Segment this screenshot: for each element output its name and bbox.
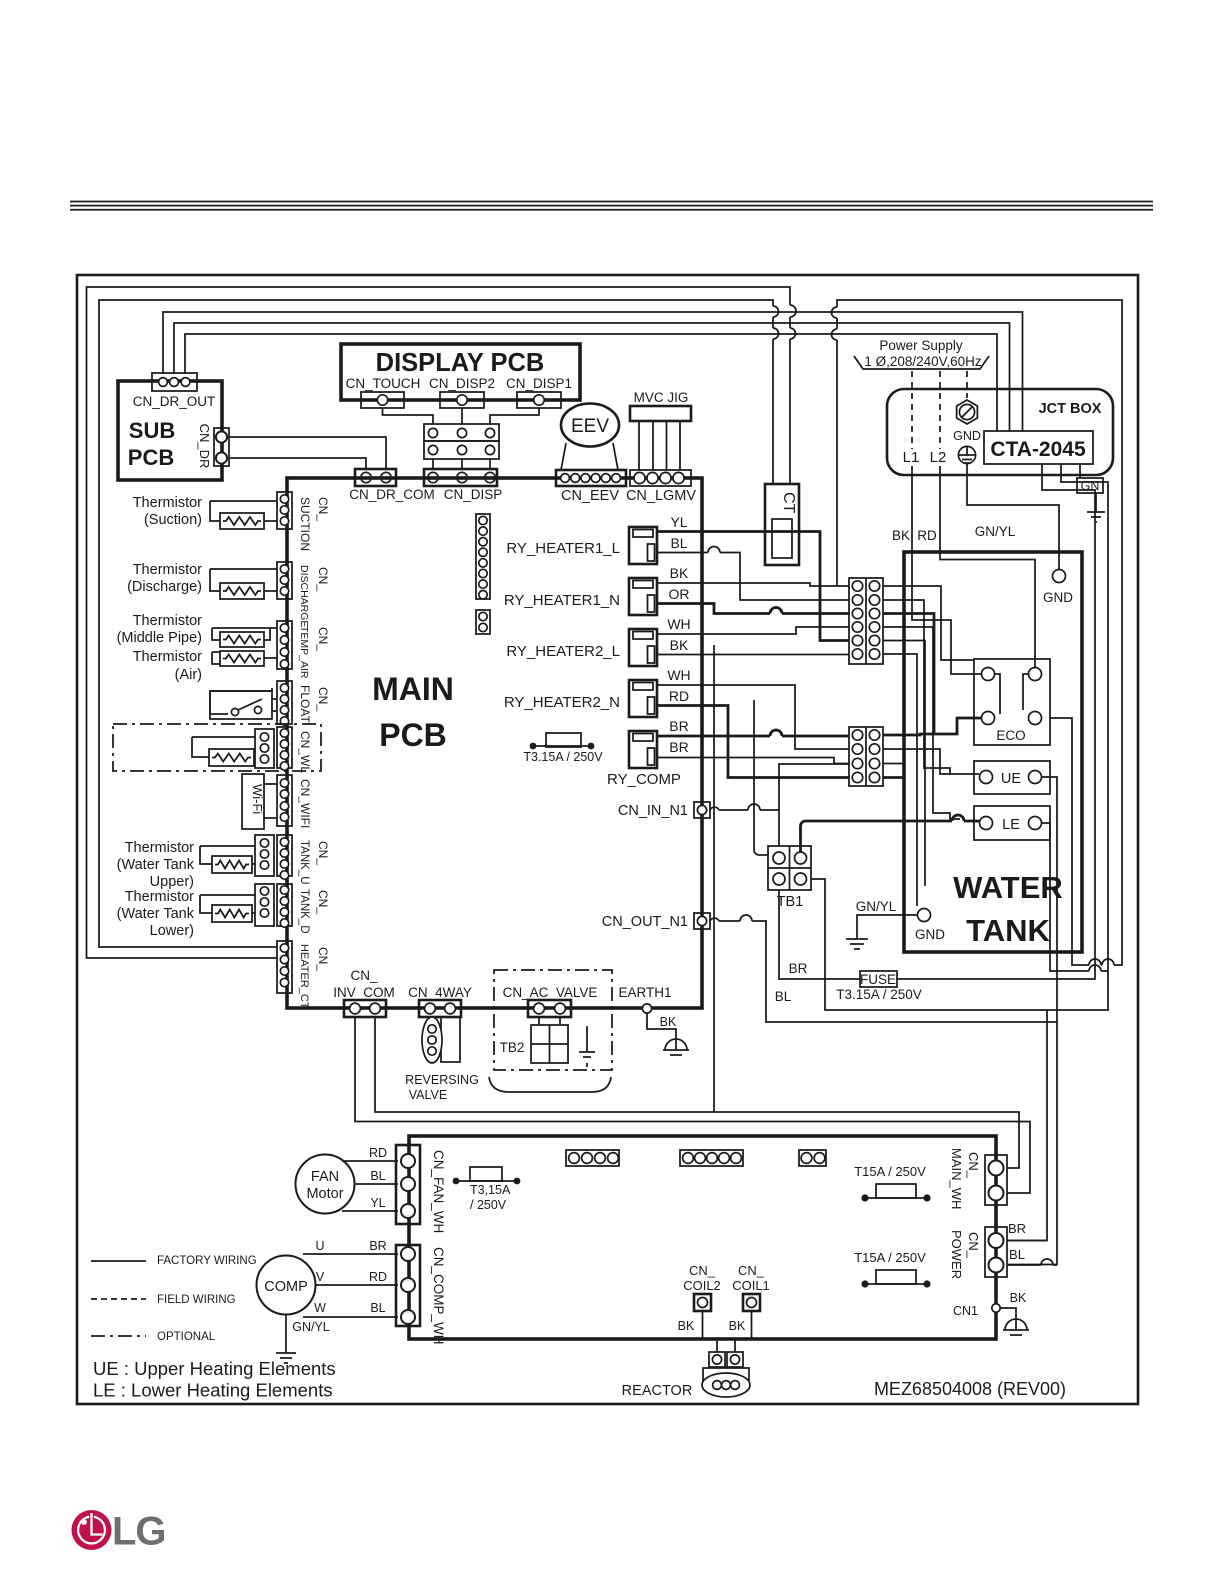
- wire grid1 row1 to ECO TL: [883, 586, 974, 660]
- svg-text:LE: LE: [1002, 817, 1020, 833]
- wire TB1 TR to LE left (thick): [801, 815, 980, 852]
- wire grid1 row5 drop: [883, 641, 925, 887]
- tank GND terminal top: [1053, 570, 1066, 583]
- svg-text:RY_HEATER1_N: RY_HEATER1_N: [504, 592, 620, 609]
- wire header to CN_DISP: [433, 459, 490, 469]
- MAIN PCB board: [287, 478, 702, 1008]
- wire L2 down: [939, 466, 941, 552]
- JCT BOX: [887, 389, 1113, 475]
- top rule: [70, 201, 1153, 203]
- svg-text:(Suction): (Suction): [144, 512, 202, 528]
- wire loop grid1 to ECO via right side: [832, 300, 1123, 965]
- EEV valve: [561, 404, 619, 447]
- reactor terminals: [709, 1352, 725, 1367]
- svg-text:CN_DISP: CN_DISP: [444, 487, 503, 502]
- WATER TANK: [904, 552, 1082, 952]
- connector CN_WL: [277, 727, 292, 768]
- svg-text:RD: RD: [669, 688, 689, 704]
- connector CN_FAN_WH: [396, 1145, 420, 1224]
- svg-text:REACTOR: REACTOR: [622, 1383, 693, 1399]
- terminal block TB1: [768, 846, 811, 890]
- svg-text:SUB: SUB: [129, 418, 175, 443]
- svg-text:YL: YL: [370, 1196, 385, 1210]
- svg-text:VALVE: VALVE: [409, 1088, 447, 1102]
- wire L1 down: [911, 466, 913, 552]
- wire CN_DISP2 to header: [461, 408, 463, 424]
- wire EEV legs: [561, 443, 618, 470]
- svg-text:CN_DR_OUT: CN_DR_OUT: [133, 394, 216, 409]
- svg-text:CN1: CN1: [953, 1304, 978, 1318]
- wire grid2 row4 thick stub: [883, 776, 904, 779]
- svg-text:RY_HEATER2_L: RY_HEATER2_L: [506, 643, 620, 660]
- svg-text:CTA-2045: CTA-2045: [990, 438, 1086, 461]
- svg-text:CN_WL: CN_WL: [298, 731, 312, 773]
- wire CN_INV_COM pin1 to CN_MAIN_WH: [355, 1017, 1030, 1193]
- COMP motor: [257, 1256, 316, 1315]
- svg-text:(Air): (Air): [175, 667, 202, 683]
- svg-text:CN_: CN_: [316, 890, 330, 914]
- svg-text:GND: GND: [953, 429, 981, 443]
- svg-text:HEATER_CT: HEATER_CT: [298, 944, 310, 1009]
- svg-text:OPTIONAL: OPTIONAL: [157, 1331, 216, 1343]
- wire CN_IN_N1 to grid2: [710, 804, 779, 810]
- inverter PCB: [409, 1136, 996, 1339]
- svg-text:CN_: CN_: [738, 1263, 765, 1278]
- svg-text:Power Supply: Power Supply: [879, 338, 963, 353]
- svg-text:T3.15A / 250V: T3.15A / 250V: [836, 987, 922, 1002]
- svg-text:BR: BR: [369, 1239, 386, 1253]
- svg-text:Thermistor: Thermistor: [133, 495, 202, 511]
- svg-text:TANK: TANK: [966, 913, 1050, 948]
- wire grid1 row3 to ECO BL (thick): [883, 614, 981, 735]
- svg-text:FLOAT: FLOAT: [298, 685, 312, 723]
- CTA-2045 box: [984, 431, 1093, 464]
- wire CN1 to ground: [1000, 1308, 1016, 1316]
- svg-text:BR: BR: [669, 718, 688, 734]
- svg-text:COIL1: COIL1: [732, 1278, 770, 1293]
- earth symbol (circle): [958, 446, 975, 463]
- outer border frame: [77, 275, 1138, 1404]
- svg-text:(Water Tank: (Water Tank: [117, 857, 195, 873]
- svg-text:BK: BK: [670, 637, 689, 653]
- svg-text:T3,15A: T3,15A: [470, 1183, 511, 1197]
- svg-text:EEV: EEV: [571, 416, 609, 437]
- svg-text:CN_: CN_: [316, 567, 330, 591]
- svg-text:CN_DISP2: CN_DISP2: [429, 376, 495, 391]
- wire EARTH1 to ground: [647, 1013, 676, 1036]
- svg-text:BK: BK: [660, 1015, 677, 1029]
- svg-text:RD: RD: [369, 1146, 387, 1160]
- header strip 2pin: [799, 1150, 826, 1166]
- Wi-Fi module: [242, 774, 264, 829]
- svg-text:BR: BR: [1008, 1221, 1026, 1236]
- svg-text:GND: GND: [915, 927, 945, 942]
- wire MVC JIG legs: [639, 421, 680, 470]
- svg-text:GN: GN: [1081, 479, 1100, 493]
- svg-text:BR: BR: [669, 739, 688, 755]
- svg-text:FAN: FAN: [311, 1169, 339, 1185]
- header block 3x2: [424, 424, 499, 441]
- connector CN_TOUCH: [361, 392, 404, 408]
- wire fan RD: [342, 1160, 398, 1162]
- connector CN_FLOAT: [277, 681, 292, 724]
- connector CN_TANK_U: [255, 835, 274, 876]
- wire fan YL: [342, 1210, 398, 1212]
- svg-text:Motor: Motor: [306, 1186, 343, 1202]
- legend optional: [91, 1335, 146, 1337]
- wire LE right to CTA riser: [1042, 464, 1108, 971]
- header strip 4pin: [566, 1150, 619, 1166]
- header strip 5pin: [680, 1150, 743, 1166]
- svg-text:RD: RD: [917, 528, 937, 543]
- svg-text:CN_WIFI: CN_WIFI: [298, 779, 312, 828]
- svg-text:L2: L2: [930, 449, 947, 466]
- connector CN_HEATER_CT: [277, 941, 292, 993]
- svg-text:DISCHARGE: DISCHARGE: [298, 565, 310, 627]
- svg-text:TB2: TB2: [500, 1040, 525, 1055]
- legend factory wiring: [91, 1260, 146, 1262]
- svg-text:BL: BL: [370, 1169, 385, 1183]
- wire coil2 to reactor: [703, 1311, 718, 1352]
- svg-text:COMP: COMP: [264, 1279, 308, 1295]
- LG logo: [72, 1510, 112, 1550]
- SUB PCB board: [118, 381, 222, 480]
- svg-text:REVERSING: REVERSING: [405, 1073, 479, 1087]
- connector CN_DR_OUT: [152, 373, 197, 391]
- svg-text:(Discharge): (Discharge): [127, 579, 202, 595]
- svg-text:MVC JIG: MVC JIG: [634, 390, 689, 405]
- LE heater terminals: [974, 806, 1050, 840]
- svg-text:TANK_D: TANK_D: [298, 889, 310, 934]
- svg-text:CN_EEV: CN_EEV: [561, 488, 619, 504]
- svg-text:FUSE: FUSE: [860, 972, 896, 987]
- connector CN_DISP1: [517, 392, 561, 408]
- svg-text:CN_: CN_: [316, 497, 330, 521]
- tank GND terminal bottom: [918, 909, 931, 922]
- svg-text:SUCTION: SUCTION: [298, 497, 312, 551]
- svg-text:WATER: WATER: [953, 870, 1063, 905]
- svg-text:GN/YL: GN/YL: [292, 1320, 330, 1334]
- svg-text:PCB: PCB: [128, 445, 174, 470]
- wire TB1 left drop: [754, 700, 768, 855]
- svg-text:CN_DR: CN_DR: [197, 424, 212, 469]
- svg-text:/ 250V: / 250V: [470, 1198, 507, 1212]
- reversing valve: [441, 1017, 460, 1062]
- connector CN_LGMV: [630, 470, 691, 486]
- connector CN_SUCTION: [277, 492, 292, 529]
- ground screw GND: [957, 400, 978, 424]
- svg-text:BK: BK: [892, 528, 910, 543]
- wire riser to TB1 horizontal: [1047, 971, 1108, 1010]
- svg-text:CN_: CN_: [316, 947, 330, 971]
- svg-text:LG: LG: [112, 1510, 166, 1554]
- svg-text:CN_: CN_: [966, 1152, 981, 1179]
- ECO thermostat: [974, 659, 1050, 745]
- wire CN_DR to CN_DR_COM pin2: [229, 437, 386, 470]
- svg-text:T3.15A / 250V: T3.15A / 250V: [523, 750, 603, 764]
- wire coil1 to reactor: [735, 1311, 752, 1352]
- svg-text:CN_: CN_: [966, 1232, 981, 1259]
- fuse T3,15A/250V (inverter): [456, 1180, 517, 1182]
- wire comp W/BL: [303, 1316, 398, 1318]
- svg-text:RY_HEATER2_N: RY_HEATER2_N: [504, 694, 620, 711]
- ground (TB2): [586, 1026, 588, 1040]
- wire grid1 row2 to UE left: [883, 600, 979, 774]
- svg-text:MAIN_WH: MAIN_WH: [949, 1148, 964, 1209]
- svg-text:PCB: PCB: [379, 717, 447, 753]
- GN ground: [1079, 464, 1081, 478]
- wire fan BL: [355, 1183, 398, 1185]
- connector CN_TANK_D: [255, 884, 274, 926]
- fuse FUSE T3.15A/250V: [860, 971, 897, 987]
- svg-text:FIELD WIRING: FIELD WIRING: [157, 1294, 236, 1306]
- FAN motor: [296, 1155, 355, 1214]
- svg-text:YL: YL: [670, 514, 687, 530]
- connector CN_WIFI: [277, 775, 292, 826]
- wire UE right riser: [1042, 777, 1057, 1022]
- wire CT loop outer (HEATER_CT to CT right): [87, 287, 797, 958]
- svg-text:MAIN: MAIN: [372, 671, 454, 707]
- svg-text:INV_COM: INV_COM: [333, 985, 395, 1000]
- svg-text:CN_: CN_: [689, 1263, 716, 1278]
- svg-text:OR: OR: [669, 586, 690, 602]
- wire grid2 row1 to ECO BL (thick): [883, 734, 934, 735]
- connector CN_COMP_WH: [396, 1245, 420, 1326]
- dashed feed GND: [966, 371, 968, 398]
- svg-text:CN_: CN_: [316, 687, 330, 711]
- wire fuse to right riser: [897, 464, 1095, 979]
- wire SUB PCB pin1 to CTA-2045: [163, 312, 1023, 431]
- svg-text:T15A / 250V: T15A / 250V: [854, 1164, 926, 1179]
- wire SUB PCB pin3 to CTA-2045: [185, 334, 997, 431]
- svg-text:GND: GND: [1043, 590, 1073, 605]
- svg-text:Thermistor: Thermistor: [133, 562, 202, 578]
- connector CN_DR_COM: [355, 469, 396, 486]
- header strip 8pin: [476, 514, 490, 599]
- svg-text:POWER: POWER: [949, 1230, 964, 1279]
- svg-text:CN_FAN_WH: CN_FAN_WH: [431, 1150, 446, 1233]
- dashed feed L2: [939, 371, 941, 449]
- optional box CN_AC_VALVE: [494, 970, 612, 1070]
- svg-text:RY_COMP: RY_COMP: [607, 771, 681, 788]
- svg-text:WH: WH: [667, 667, 690, 683]
- svg-text:GN/YL: GN/YL: [975, 524, 1016, 539]
- wire comp V/RD: [316, 1284, 398, 1286]
- svg-text:FACTORY WIRING: FACTORY WIRING: [157, 1255, 257, 1267]
- connector CN_DISCHARGE: [277, 562, 292, 599]
- legend field wiring: [91, 1298, 146, 1300]
- svg-text:BR: BR: [789, 961, 808, 976]
- svg-text:CN_: CN_: [316, 627, 330, 651]
- svg-text:JCT BOX: JCT BOX: [1039, 401, 1102, 417]
- svg-text:TEMP_AIR: TEMP_AIR: [298, 626, 310, 679]
- svg-text:CN_: CN_: [316, 841, 330, 865]
- wire CN_DR to CN_DR_COM pin1: [229, 458, 366, 470]
- svg-text:BK: BK: [729, 1319, 746, 1333]
- wire L1 inside tank: [912, 552, 981, 674]
- svg-text:CN_TOUCH: CN_TOUCH: [346, 376, 421, 391]
- svg-text:GN/YL: GN/YL: [856, 899, 897, 914]
- connector grid 8pin: [849, 727, 883, 786]
- svg-text:CN_LGMV: CN_LGMV: [626, 488, 696, 504]
- svg-text:UE: UE: [1001, 771, 1021, 787]
- connector CN_DISP: [424, 469, 497, 486]
- svg-text:BL: BL: [670, 535, 687, 551]
- svg-text:CN_COMP_WH: CN_COMP_WH: [431, 1247, 446, 1345]
- connector CN_TEMP_AIR: [277, 621, 292, 669]
- wire grid1 row6 stub: [883, 654, 917, 906]
- connector CN_DISP2: [440, 392, 484, 408]
- svg-text:T15A / 250V: T15A / 250V: [854, 1250, 926, 1265]
- DISPLAY PCB board: [341, 344, 580, 400]
- svg-text:TB1: TB1: [777, 894, 804, 910]
- svg-text:BL: BL: [370, 1301, 385, 1315]
- relay wires to grids: [657, 532, 849, 641]
- svg-text:(Middle Pipe): (Middle Pipe): [117, 630, 202, 646]
- svg-text:BL: BL: [775, 989, 792, 1004]
- wire SUB PCB pin2 to CTA-2045: [174, 323, 1010, 431]
- brace under AC valve: [489, 1077, 611, 1092]
- svg-text:1 Ø,208/240V,60Hz: 1 Ø,208/240V,60Hz: [864, 354, 982, 369]
- wire grid2 row3 stub: [883, 763, 904, 765]
- fuse T3.15A/250V (main pcb): [533, 745, 591, 747]
- svg-text:CN_DISP1: CN_DISP1: [506, 376, 572, 391]
- wire TB1 BR down right: [811, 879, 1047, 1241]
- svg-text:CN_OUT_N1: CN_OUT_N1: [602, 914, 688, 930]
- svg-text:CN_: CN_: [350, 968, 377, 983]
- svg-text:U: U: [315, 1239, 324, 1253]
- dashed feed L1: [911, 371, 913, 449]
- connector CN_EEV: [556, 470, 626, 486]
- connector small CN_WL: [255, 729, 274, 768]
- svg-text:CT: CT: [780, 492, 797, 514]
- svg-text:V: V: [316, 1270, 325, 1284]
- current transformer CT: [765, 484, 799, 565]
- wire CN_INV_COM pin2 to CN_MAIN_WH: [375, 1017, 1019, 1168]
- svg-text:(Water Tank: (Water Tank: [117, 906, 195, 922]
- optional water-level sensor (dash-dot box): [113, 724, 321, 771]
- float switch: [210, 688, 272, 714]
- wire vertical bypass: [713, 645, 715, 1112]
- svg-text:BL: BL: [1009, 1247, 1025, 1262]
- wire grid1 row4 to LE left: [883, 627, 960, 819]
- wire earth to tank GND: [967, 464, 1059, 570]
- relay RY_COMP: [629, 731, 657, 768]
- svg-text:Thermistor: Thermistor: [125, 889, 194, 905]
- wire CN_DISP1 to header: [490, 408, 539, 424]
- svg-text:Upper): Upper): [150, 874, 194, 890]
- wire grid2 row2 to UE: [883, 749, 950, 774]
- connector grid 12pin: [849, 578, 883, 664]
- wire TB1 BL to fuse: [779, 890, 860, 979]
- terminal TB2: [539, 1017, 560, 1025]
- wire CN_TOUCH to header: [383, 408, 434, 424]
- svg-text:WH: WH: [667, 616, 690, 632]
- wire CN_OUT_N1 to BL: [710, 915, 1057, 1265]
- svg-text:CN_AC_VALVE: CN_AC_VALVE: [503, 985, 598, 1000]
- svg-text:Thermistor: Thermistor: [133, 649, 202, 665]
- svg-text:EARTH1: EARTH1: [618, 985, 671, 1000]
- svg-text:BK: BK: [678, 1319, 695, 1333]
- svg-text:RY_HEATER1_L: RY_HEATER1_L: [506, 540, 620, 557]
- wire L2 inside tank: [940, 552, 1035, 667]
- wire CT loop inner (HEATER_CT to CT left): [99, 300, 779, 947]
- svg-text:CN_4WAY: CN_4WAY: [408, 985, 472, 1000]
- svg-text:Thermistor: Thermistor: [125, 840, 194, 856]
- svg-text:W: W: [314, 1301, 326, 1315]
- svg-text:TANK_U: TANK_U: [298, 840, 310, 885]
- header strip 2pin: [476, 610, 490, 634]
- wire comp U/BR: [303, 1253, 398, 1255]
- svg-text:CN_DR_COM: CN_DR_COM: [349, 487, 435, 502]
- svg-text:L1: L1: [903, 449, 920, 466]
- svg-text:UE : Upper Heating Elements: UE : Upper Heating Elements: [93, 1358, 336, 1379]
- svg-text:Lower): Lower): [150, 923, 194, 939]
- svg-text:ECO: ECO: [996, 728, 1025, 743]
- svg-text:RD: RD: [369, 1270, 387, 1284]
- svg-text:BK: BK: [670, 565, 689, 581]
- svg-text:BK: BK: [1010, 1291, 1027, 1305]
- UE heater terminals: [974, 761, 1050, 794]
- svg-text:Wi-Fi: Wi-Fi: [250, 784, 265, 814]
- svg-text:DISPLAY PCB: DISPLAY PCB: [376, 349, 545, 377]
- svg-text:CN_IN_N1: CN_IN_N1: [618, 803, 688, 819]
- svg-text:LE : Lower Heating Elements: LE : Lower Heating Elements: [93, 1380, 333, 1401]
- svg-text:MEZ68504008 (REV00): MEZ68504008 (REV00): [874, 1379, 1066, 1399]
- svg-text:COIL2: COIL2: [683, 1278, 721, 1293]
- svg-text:Thermistor: Thermistor: [133, 613, 202, 629]
